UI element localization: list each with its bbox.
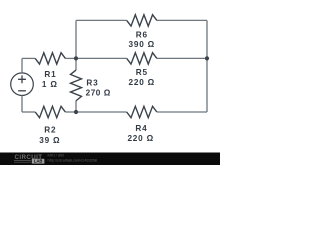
svg-text:220 Ω: 220 Ω <box>127 134 154 143</box>
wire source top to R1 <box>21 58 23 73</box>
wire node A to R3 top <box>75 58 77 70</box>
svg-text:LAB: LAB <box>34 159 43 164</box>
voltage source V1 <box>11 73 34 96</box>
resistor R6 <box>127 15 157 26</box>
svg-text:R1: R1 <box>44 70 56 79</box>
wire node A up to top rail <box>75 20 77 58</box>
resistor R4 <box>127 106 157 117</box>
svg-text:R4: R4 <box>135 124 147 133</box>
svg-text:1 Ω: 1 Ω <box>42 80 58 89</box>
wire top rail left segment <box>76 19 127 21</box>
junction node C <box>205 56 209 60</box>
wire R3 bottom to node B <box>75 101 77 112</box>
CircuitLab logo LAB box <box>32 159 45 164</box>
svg-text:R6: R6 <box>136 31 148 40</box>
svg-text:220 Ω: 220 Ω <box>129 78 156 87</box>
svg-text:KIKI / dirli: KIKI / dirli <box>48 154 64 158</box>
svg-text:390 Ω: 390 Ω <box>129 40 156 49</box>
wire R1 left lead <box>22 57 35 59</box>
V1 plus terminal mark <box>18 75 26 83</box>
wire R4 to bottom-right corner <box>157 111 207 113</box>
svg-text:39 Ω: 39 Ω <box>39 136 60 145</box>
wire R2 left lead <box>22 111 35 113</box>
resistor R3 <box>71 70 82 101</box>
svg-text:R5: R5 <box>136 68 148 77</box>
svg-text:http://circuitlab.com/c/433268: http://circuitlab.com/c/433268 <box>48 159 97 163</box>
resistor R5 <box>127 53 157 64</box>
wire top rail right segment <box>157 19 207 21</box>
resistor R1 <box>35 53 65 64</box>
CircuitLab logo lines <box>14 161 31 163</box>
svg-text:R3: R3 <box>86 79 98 88</box>
wire R2 right lead to node B <box>65 111 76 113</box>
junction node B <box>74 110 78 114</box>
resistor R2 <box>35 106 65 117</box>
svg-text:270 Ω: 270 Ω <box>86 88 111 97</box>
wire node A to R5 <box>76 57 127 59</box>
svg-text:R2: R2 <box>44 126 56 135</box>
watermark bar <box>0 153 220 166</box>
junction node A <box>74 56 78 60</box>
wire node B to R4 <box>76 111 127 113</box>
wire R5 to node C <box>157 57 207 59</box>
V1 minus terminal mark <box>18 90 26 92</box>
wire R1 right lead to node A <box>65 57 76 59</box>
wire right rail <box>206 20 208 112</box>
wire source bottom down <box>21 96 23 113</box>
